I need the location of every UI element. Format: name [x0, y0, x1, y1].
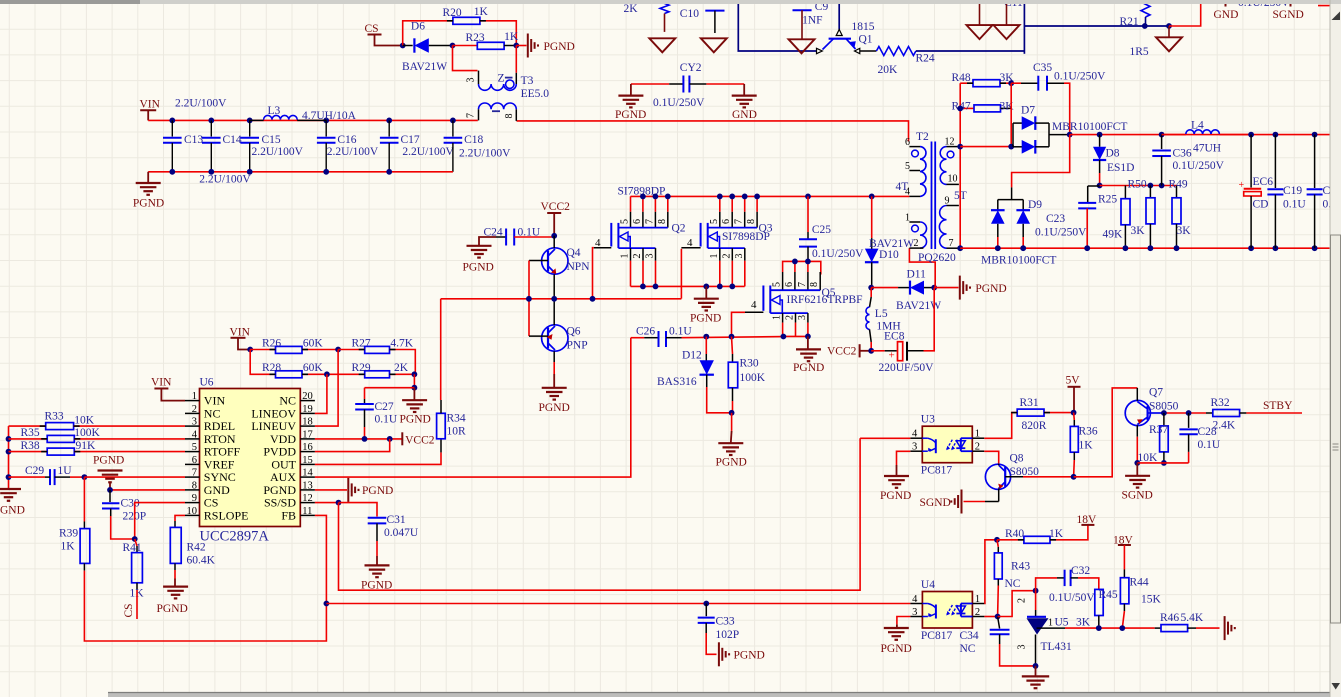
resistor R30 100K — [732, 337, 733, 354]
svg-text:18V: 18V — [1077, 514, 1098, 526]
svg-text:EC8: EC8 — [884, 331, 905, 343]
svg-text:5: 5 — [905, 161, 910, 172]
svg-text:PQ2620: PQ2620 — [918, 252, 956, 264]
svg-text:1: 1 — [975, 429, 980, 440]
node dots on VIN rail — [169, 118, 175, 124]
node dots source rail — [640, 284, 646, 290]
svg-text:NPN: NPN — [567, 261, 591, 273]
ground PGND (U3 pin3) — [896, 465, 898, 476]
wire snubber node rail — [1100, 185, 1177, 187]
resistor R39 1K — [83, 477, 85, 521]
svg-text:1: 1 — [905, 213, 910, 224]
svg-text:3: 3 — [912, 442, 917, 453]
svg-text:100K: 100K — [740, 372, 766, 384]
svg-text:0.1U/250V: 0.1U/250V — [1173, 160, 1225, 172]
svg-text:CY2: CY2 — [680, 62, 702, 74]
transformer T2 secondary winding pins 12-10 — [947, 146, 961, 148]
svg-text:C30: C30 — [121, 498, 140, 510]
svg-text:C36: C36 — [1173, 148, 1192, 160]
svg-text:R28: R28 — [262, 362, 281, 374]
resistor R31 820R — [1017, 409, 1044, 416]
mosfet Q2 SI7898DP — [630, 196, 632, 211]
wire Q5 gate — [745, 311, 763, 313]
svg-text:PGND: PGND — [362, 485, 393, 497]
wire navy net R21 — [1024, 25, 1169, 27]
wire Q3 gate drive — [680, 249, 682, 299]
capacitor C27 0.1U — [364, 388, 366, 399]
inductor L5 1MH — [870, 288, 872, 297]
svg-text:PC817: PC817 — [921, 465, 953, 477]
ground PGND (Q6 emitter) — [553, 362, 555, 374]
wire U3 pin3 to ground — [897, 451, 911, 465]
svg-text:7: 7 — [797, 282, 808, 287]
svg-text:MBR10100FCT: MBR10100FCT — [981, 255, 1056, 267]
svg-text:47UH: 47UH — [1193, 143, 1221, 155]
svg-text:0.047U: 0.047U — [384, 527, 419, 539]
wire R48/R47 to D7 anode — [1010, 83, 1012, 147]
svg-text:D9: D9 — [1028, 199, 1042, 211]
svg-text:6: 6 — [192, 455, 197, 466]
svg-text:T3: T3 — [521, 75, 534, 87]
resistor R25 49K — [1124, 186, 1126, 199]
wire U4 pin1 up to R40/R43 — [984, 540, 997, 604]
svg-text:1815: 1815 — [852, 21, 875, 33]
resistor R47 3K — [960, 107, 974, 109]
wire left divider column — [8, 426, 10, 488]
svg-text:0.1U: 0.1U — [375, 414, 398, 426]
svg-text:5.4K: 5.4K — [1181, 612, 1204, 624]
svg-text:C17: C17 — [401, 134, 420, 146]
resistor R32 2.4K — [1206, 412, 1213, 414]
ground PGND (input filter) — [147, 172, 149, 183]
svg-text:3: 3 — [645, 254, 656, 259]
svg-text:R25: R25 — [1098, 194, 1117, 206]
power ground port PGND (D11) — [934, 287, 958, 289]
svg-text:PGND: PGND — [400, 414, 431, 426]
svg-text:1R5: 1R5 — [1130, 46, 1149, 58]
capacitor C15 — [249, 120, 251, 136]
svg-text:R39: R39 — [59, 528, 78, 540]
ground PGND (Q5 source) — [805, 334, 811, 340]
capacitor C30 220P — [109, 490, 111, 502]
capacitor C24 0.1U — [496, 236, 506, 238]
wire PVDD pin16 — [315, 439, 390, 452]
svg-text:4T: 4T — [896, 181, 909, 193]
wire gate-drive drain rail (to T2 pin 4) — [631, 195, 910, 197]
wire stub top right corner — [1318, 5, 1341, 7]
svg-text:7: 7 — [466, 113, 477, 118]
svg-text:R23: R23 — [466, 32, 485, 44]
capacitor C31 0.047U — [339, 503, 378, 517]
svg-text:GND: GND — [732, 109, 757, 121]
svg-text:12: 12 — [302, 493, 313, 504]
svg-text:R30: R30 — [740, 358, 759, 370]
svg-text:2.4K: 2.4K — [1213, 420, 1236, 432]
svg-text:102P: 102P — [716, 629, 740, 641]
svg-text:PGND: PGND — [539, 402, 570, 414]
svg-text:1: 1 — [1048, 618, 1053, 629]
svg-text:R27: R27 — [352, 338, 371, 350]
svg-text:PGND: PGND — [157, 603, 188, 615]
node dot TL431 cathode/C32 — [1033, 588, 1039, 594]
svg-text:2K: 2K — [624, 3, 639, 15]
svg-text:R24: R24 — [916, 53, 935, 65]
wire RSLOPE pin10 — [175, 515, 185, 521]
svg-text:PGND: PGND — [880, 490, 911, 502]
capacitor C20 0.1U (clipped) — [1312, 132, 1318, 138]
node dots drain rail — [640, 194, 646, 200]
node dots secondary ground rail — [995, 245, 1001, 251]
ground triangle (C10) — [701, 38, 727, 52]
wire Q8 base to R36 node — [1023, 476, 1074, 478]
power ground port PGND (C33) — [718, 642, 720, 666]
svg-text:5: 5 — [192, 442, 197, 453]
svg-text:C14: C14 — [223, 134, 242, 146]
wire Q2 gate drive — [593, 248, 594, 299]
transformer T2 aux winding pins 1-2 — [909, 221, 920, 223]
wire totem output rail — [441, 298, 682, 300]
svg-text:4.7K: 4.7K — [390, 338, 413, 350]
svg-text:CS: CS — [365, 23, 379, 35]
svg-text:60K: 60K — [303, 338, 324, 350]
svg-text:SI7898DP: SI7898DP — [722, 231, 770, 243]
svg-text:2.2U/100V: 2.2U/100V — [402, 146, 454, 158]
svg-text:11: 11 — [302, 506, 312, 517]
resistor R50 3K — [1149, 186, 1151, 198]
resistor R24 20K — [860, 50, 877, 52]
svg-text:60.4K: 60.4K — [187, 555, 216, 567]
svg-text:1K: 1K — [474, 6, 489, 18]
resistor R43 NC — [997, 540, 998, 547]
node dot R36/Q8/Q7 link — [1071, 474, 1077, 480]
wire T2 pin2 to D11 node — [909, 248, 935, 288]
svg-text:17: 17 — [302, 429, 313, 440]
svg-text:T2: T2 — [916, 131, 929, 143]
svg-text:2.2U/100V: 2.2U/100V — [459, 148, 511, 160]
ground triangle pair (C11 area) — [979, 3, 981, 25]
transistor Q4 NPN — [542, 248, 568, 274]
power ground port PGND (pin13) — [315, 489, 347, 491]
svg-text:MBR10100FCT: MBR10100FCT — [1052, 121, 1127, 133]
diode D7 MBR10100FCT (dual) — [960, 146, 1011, 148]
scrollbar top strip — [0, 0, 1341, 4]
svg-text:1: 1 — [772, 315, 783, 320]
svg-text:CS: CS — [123, 603, 135, 617]
wire Q2/Q3 source rail — [631, 285, 745, 287]
svg-text:6: 6 — [721, 219, 732, 224]
svg-text:2K: 2K — [394, 362, 409, 374]
capacitor C16 — [325, 120, 327, 136]
svg-text:2: 2 — [632, 254, 643, 259]
wire red top-right stub — [1169, 0, 1201, 26]
ground PGND (CY2 left) — [630, 84, 632, 96]
node dot R27/R29 junction — [412, 371, 418, 377]
wire C27 top link — [365, 387, 415, 389]
svg-text:8: 8 — [809, 282, 820, 287]
wire U4 pin3 to ground — [897, 617, 911, 625]
svg-text:PGND: PGND — [975, 283, 1006, 295]
svg-text:2: 2 — [192, 404, 197, 415]
capacitor C32 0.1U/50V — [1036, 578, 1057, 591]
svg-text:PC817: PC817 — [921, 630, 953, 642]
ground triangle (2K) — [649, 38, 675, 52]
IC U6 left pins — [185, 400, 200, 402]
svg-text:3: 3 — [912, 607, 917, 618]
node dots on input ground rail — [169, 169, 175, 175]
svg-text:3: 3 — [797, 315, 808, 320]
wire navy net left segment — [738, 4, 817, 51]
capacitor C18 — [452, 120, 454, 136]
svg-text:C13: C13 — [184, 134, 203, 146]
capacitor C25 0.1U/250V — [807, 196, 809, 232]
svg-text:4: 4 — [192, 429, 198, 440]
wire secondary pin12 column — [959, 83, 961, 248]
svg-text:3: 3 — [466, 78, 477, 83]
resistor lead stubs (black) — [270, 349, 276, 351]
wire R27/R29 node down — [413, 374, 415, 387]
svg-text:Q4: Q4 — [567, 247, 581, 259]
ground PGND (TL431) — [1035, 666, 1037, 677]
wire Q4 base to Q6 base — [528, 261, 530, 337]
svg-text:IRF6216TRPBF: IRF6216TRPBF — [787, 294, 863, 306]
svg-text:Z: Z — [498, 73, 505, 85]
wire R36 node to Q7 collector — [1074, 388, 1138, 477]
resistor R20 1K — [453, 17, 480, 24]
IC U3 PC817 optocoupler — [922, 426, 972, 463]
wire FB pin11 rail — [315, 515, 327, 603]
resistor R29 2K — [365, 371, 390, 378]
wire R20 to PGND node — [480, 21, 516, 46]
svg-text:4: 4 — [687, 237, 693, 249]
svg-text:PGND: PGND — [881, 643, 912, 655]
svg-text:4.7UH/10A: 4.7UH/10A — [302, 110, 357, 122]
node dot C29/R39/SYNC — [82, 474, 88, 480]
svg-text:SGND: SGND — [920, 497, 951, 509]
wire R28 row — [250, 350, 275, 375]
diode D12 BAS316 — [705, 337, 707, 354]
svg-text:NC: NC — [960, 643, 976, 655]
svg-text:15K: 15K — [1141, 594, 1162, 606]
svg-text:Q8: Q8 — [1010, 453, 1024, 465]
svg-text:RSLOPE: RSLOPE — [204, 508, 249, 522]
svg-text:2.2U/100V: 2.2U/100V — [327, 146, 379, 158]
wire R39 to FB loop — [84, 571, 326, 641]
wire TL431 cathode to opto — [998, 591, 1036, 617]
svg-text:PGND: PGND — [544, 41, 575, 53]
svg-text:R29: R29 — [352, 362, 371, 374]
inductor L4 47UH — [1162, 134, 1186, 136]
svg-text:PGND: PGND — [716, 457, 747, 469]
svg-text:EC6: EC6 — [1253, 176, 1274, 188]
svg-text:Q1: Q1 — [859, 34, 873, 46]
svg-text:U5: U5 — [1055, 617, 1069, 629]
node dot VCC2/EC8 — [868, 348, 874, 354]
svg-text:10K: 10K — [74, 415, 95, 427]
svg-text:220UF/50V: 220UF/50V — [879, 362, 935, 374]
ground PGND (U4 pin3) — [896, 624, 898, 628]
svg-text:C23: C23 — [1046, 213, 1065, 225]
capacitor C23 0.1U/250V — [1088, 185, 1100, 187]
wire SS/SD rail — [339, 438, 861, 590]
resistor R38 91K — [9, 451, 48, 453]
svg-text:9: 9 — [945, 196, 950, 207]
wire LINEOV pin19 — [315, 374, 327, 413]
mosfet Q3 SI7898DP — [719, 196, 721, 211]
svg-text:1: 1 — [709, 254, 720, 259]
svg-text:0.1U/250V: 0.1U/250V — [812, 248, 864, 260]
wire output rail (secondary) — [1070, 134, 1330, 136]
svg-text:GND: GND — [0, 505, 25, 517]
svg-text:1K: 1K — [61, 541, 76, 553]
svg-text:10: 10 — [187, 506, 198, 517]
wire C26/D12/R30 node — [682, 337, 784, 338]
diode D10 BAV21W — [871, 196, 873, 238]
svg-text:UCC2897A: UCC2897A — [200, 529, 270, 545]
scrollbar right — [1330, 4, 1341, 697]
svg-text:8: 8 — [504, 114, 515, 119]
node dot 5V/R31/R36 — [1071, 410, 1077, 416]
port SGND (Q8 emitter) — [985, 501, 999, 503]
svg-text:1: 1 — [975, 594, 980, 605]
transistor Q8 S8050 — [985, 464, 1010, 489]
mosfet Q5 IRF6216TRPBF — [783, 261, 821, 274]
svg-text:C16: C16 — [337, 134, 356, 146]
svg-text:6: 6 — [632, 219, 643, 224]
svg-text:VIN: VIN — [151, 377, 172, 389]
svg-text:8: 8 — [657, 219, 668, 224]
svg-text:L5: L5 — [875, 308, 888, 320]
svg-text:8: 8 — [192, 480, 197, 491]
svg-text:R36: R36 — [1079, 426, 1098, 438]
svg-text:1U: 1U — [58, 465, 73, 477]
svg-text:D10: D10 — [879, 249, 899, 261]
wire U3 pin1 to R31 — [984, 413, 1017, 439]
wire SYNC — [84, 476, 185, 478]
svg-text:L3: L3 — [268, 105, 281, 117]
svg-text:3K: 3K — [1076, 617, 1091, 629]
svg-text:+: + — [889, 350, 895, 362]
capacitor EC8 220UF/50V (electrolytic) — [871, 350, 885, 352]
svg-text:91K: 91K — [76, 440, 97, 452]
resistor R34 10R — [440, 439, 442, 453]
resistor R37 10K — [1163, 413, 1165, 426]
wire CS pin9 — [135, 503, 185, 539]
svg-text:R32: R32 — [1211, 397, 1230, 409]
svg-text:2: 2 — [914, 238, 919, 249]
svg-text:20K: 20K — [878, 64, 899, 76]
svg-text:NC: NC — [1005, 578, 1021, 590]
node dot R26/R27 — [335, 347, 341, 353]
ground PGND (C31) — [376, 556, 378, 565]
capacitor C13 — [171, 120, 173, 136]
capacitor C19 0.1U — [1273, 132, 1279, 138]
svg-text:C26: C26 — [636, 326, 655, 338]
svg-text:U6: U6 — [200, 377, 214, 389]
svg-text:C27: C27 — [375, 401, 394, 413]
node dot D6-R23 — [450, 43, 456, 49]
svg-text:1: 1 — [192, 391, 197, 402]
svg-text:7: 7 — [734, 219, 745, 224]
wire GND pin8 — [110, 489, 185, 491]
svg-text:U3: U3 — [921, 414, 935, 426]
svg-text:1NF: 1NF — [802, 15, 822, 27]
transformer T2 secondary winding pins 9-7 — [947, 205, 959, 207]
svg-text:D7: D7 — [1021, 105, 1035, 117]
capacitor C14 — [210, 120, 212, 136]
svg-text:2.2U/100V: 2.2U/100V — [199, 174, 251, 186]
svg-text:10R: 10R — [447, 426, 467, 438]
ground PGND (C27 node) — [413, 388, 415, 401]
svg-text:R46: R46 — [1160, 612, 1179, 624]
svg-text:VCC2: VCC2 — [405, 435, 435, 447]
resistor R45 3K — [1095, 589, 1103, 615]
svg-text:2: 2 — [721, 254, 732, 259]
node dot VIN/R26/R28 — [247, 347, 253, 353]
ground SGND (Q7 emitter) — [1136, 463, 1138, 476]
svg-text:PGND: PGND — [133, 198, 164, 210]
svg-text:4: 4 — [912, 429, 918, 440]
wire navy net right segment — [916, 50, 1025, 52]
node dot D11/T2pin2 path — [931, 285, 937, 291]
svg-text:R31: R31 — [1020, 397, 1039, 409]
ground PGND (R42) — [174, 579, 176, 587]
svg-text:R44: R44 — [1130, 577, 1149, 589]
svg-text:PGND: PGND — [463, 262, 494, 274]
svg-text:C31: C31 — [387, 514, 406, 526]
svg-text:0.1U/50V: 0.1U/50V — [1049, 592, 1095, 604]
wire D12/R30 to PGND — [707, 387, 732, 413]
transistor Q1 1815 — [838, 4, 840, 30]
capacitor C36 0.1U/250V — [1159, 132, 1165, 138]
capacitor C29 1U — [9, 476, 46, 478]
svg-text:PGND: PGND — [734, 650, 765, 662]
port CS (rotated) — [136, 590, 138, 619]
wire VDD pin17 — [315, 438, 402, 440]
svg-text:PGND: PGND — [93, 455, 124, 467]
svg-text:0.1U/250V: 0.1U/250V — [653, 97, 705, 109]
svg-text:0.1U: 0.1U — [518, 227, 541, 239]
svg-text:3: 3 — [1017, 645, 1028, 650]
svg-text:FB: FB — [281, 508, 296, 522]
svg-text:R33: R33 — [45, 411, 64, 423]
transformer T3 EE5.0 — [478, 71, 480, 84]
diode D11 BAV21W — [871, 287, 898, 289]
svg-text:VCC2: VCC2 — [827, 346, 857, 358]
svg-text:R43: R43 — [1011, 561, 1030, 573]
resistor R49 3K — [1176, 186, 1178, 198]
svg-text:C32: C32 — [1071, 565, 1090, 577]
svg-text:VIN: VIN — [140, 99, 161, 111]
capacitor C35 0.1U/250V — [1011, 82, 1021, 84]
svg-text:R38: R38 — [21, 440, 40, 452]
svg-text:6: 6 — [905, 137, 910, 148]
svg-text:100K: 100K — [74, 427, 100, 439]
svg-text:STBY: STBY — [1263, 400, 1293, 412]
svg-text:5V: 5V — [1066, 375, 1081, 387]
wire LINEUV pin18 — [315, 350, 338, 427]
wire Q5 source frame bottom — [783, 335, 808, 337]
svg-text:C33: C33 — [716, 616, 735, 628]
svg-text:4: 4 — [595, 237, 601, 249]
svg-text:D11: D11 — [907, 269, 927, 281]
svg-text:R48: R48 — [952, 72, 971, 84]
node dot CS-D6 — [400, 43, 406, 49]
resistor R48 3K — [960, 82, 973, 84]
svg-text:C15: C15 — [262, 134, 281, 146]
ground PGND (C24) — [479, 237, 496, 246]
ground triangle (R21) — [1168, 26, 1170, 37]
svg-text:D12: D12 — [682, 350, 702, 362]
